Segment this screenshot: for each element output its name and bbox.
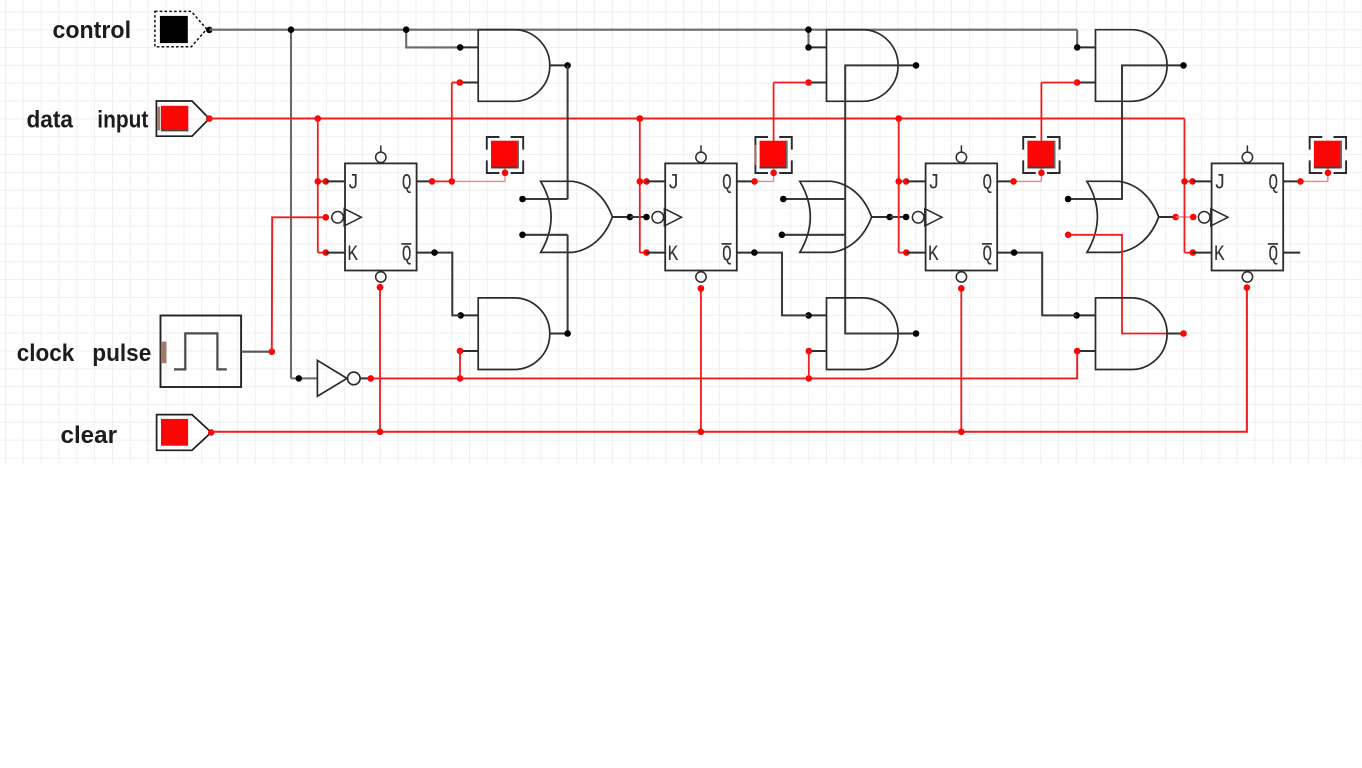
wire: FF1 Qbar to U4 in1 (black) — [431, 249, 461, 315]
flip-flop FF1 (JK) — [326, 145, 434, 282]
inverter U1 (NOT gate) — [291, 360, 374, 396]
svg-text:Q: Q — [722, 242, 732, 267]
svg-text:K: K — [928, 242, 939, 267]
svg-text:Q: Q — [722, 171, 732, 196]
wire: data bus drop to FF3 J,K (red) — [895, 119, 909, 256]
svg-text:Q: Q — [982, 242, 992, 267]
AND gate U5 (top, stage 2) — [805, 30, 919, 102]
wire: NOT bus riser to U6 in2 (red) — [808, 351, 810, 378]
svg-text:clear: clear — [61, 422, 118, 449]
LED1 (lit) — [487, 137, 523, 176]
svg-text:K: K — [668, 242, 679, 267]
svg-text:Q: Q — [402, 171, 412, 196]
wire: FF3 Qbar to U9 in1 (black) — [1011, 249, 1077, 315]
wire: U4 out to OR U3 in2 (black) — [519, 232, 567, 334]
label "data input" — [27, 106, 149, 133]
svg-text:Q: Q — [1268, 171, 1278, 196]
wire: U9 out to OR U10 in2 (red) — [1065, 232, 1167, 334]
wire: FF4 Q net (red) to LED4 — [1297, 173, 1328, 185]
AND gate U9 (bottom, stage 3) — [1073, 298, 1187, 370]
wire: data bus drop to FF2 J,K (red) — [637, 115, 650, 256]
input pin: control (logic 0) — [155, 11, 213, 46]
wire: data bus drop to FF4 J,K (red) — [1181, 119, 1196, 256]
svg-text:Q: Q — [1268, 242, 1278, 267]
wire: clock to FF1 (red) — [272, 214, 329, 352]
flip-flop FF4 (JK) — [1193, 145, 1301, 282]
LED3 (lit) — [1023, 137, 1059, 176]
LED2 (lit) — [755, 137, 791, 176]
wire: inverted-control bus (red, logic 1) — [371, 351, 1077, 382]
OR gate U3 (stage 1) — [541, 181, 634, 252]
AND gate U4 (bottom, stage 1) — [457, 298, 571, 370]
AND gate U2 (top, stage 1) — [457, 30, 571, 102]
LED4 (lit) — [1310, 137, 1346, 176]
svg-text:Q: Q — [982, 171, 992, 196]
wire: U3 out to FF2 clock (black) — [630, 214, 650, 221]
wire: U5/U6 outputs link through OR U7 (black) — [779, 65, 900, 333]
wire: FF2 Qbar to U6 in1 (black) — [751, 249, 808, 315]
wire: FF1 Q net (red) to LED1 and U2 in2 — [429, 83, 505, 185]
input pin: clear (logic 1) — [157, 415, 215, 451]
wire: FF1 clear riser top dot — [377, 284, 384, 291]
svg-text:Q: Q — [402, 242, 412, 267]
AND gate U6 (bottom, stage 2) — [805, 298, 919, 370]
svg-text:J: J — [1214, 171, 1226, 196]
svg-text:clock: clock — [17, 340, 75, 367]
input pin: data input (logic 1) — [156, 101, 212, 136]
wire: U10 out to FF4 clock (red) — [1176, 214, 1197, 221]
wire: control bus (gray, logic 0) — [209, 26, 1077, 378]
svg-text:pulse: pulse — [92, 340, 151, 367]
flip-flop FF2 (JK) — [646, 145, 754, 282]
wire: data bus drop to FF1 J,K (red) — [315, 119, 330, 256]
AND gate U8 (top, stage 3) — [1074, 30, 1187, 102]
OR gate U7 (stage 2) — [800, 181, 893, 252]
wire: data bus (red, logic 1) — [209, 115, 1184, 122]
wire: FF2 Q net (red) through LED2 to U5 in2 — [751, 83, 808, 185]
wire: FF2 clear riser top dot — [698, 285, 705, 292]
svg-text:J: J — [347, 171, 359, 196]
svg-text:K: K — [347, 242, 358, 267]
svg-text:input: input — [97, 106, 148, 133]
clock generator CP1 — [161, 316, 276, 388]
svg-text:J: J — [928, 171, 940, 196]
svg-text:J: J — [668, 171, 680, 196]
flip-flop FF3 (JK) — [907, 145, 1015, 282]
svg-text:K: K — [1214, 242, 1225, 267]
svg-text:control: control — [53, 17, 132, 44]
wire: clear bus (red, logic 1) — [211, 284, 1250, 435]
svg-text:data: data — [27, 106, 74, 133]
wire: FF3 clear riser top dot — [958, 285, 965, 292]
label "clock pulse" — [17, 340, 152, 367]
wire: U8 out to OR U10 in1 (black) — [1065, 65, 1167, 202]
OR gate U10 (stage 3) — [1087, 181, 1179, 252]
wire: U7 out to FF3 clock (black) — [890, 214, 910, 221]
wire: FF3 Q net (red) through LED3 to U8 in2 — [1010, 83, 1077, 185]
wire: NOT bus riser to U4 in2 (red) — [459, 351, 461, 378]
wire: U2 out to OR U3 in1 (black) — [519, 65, 567, 202]
